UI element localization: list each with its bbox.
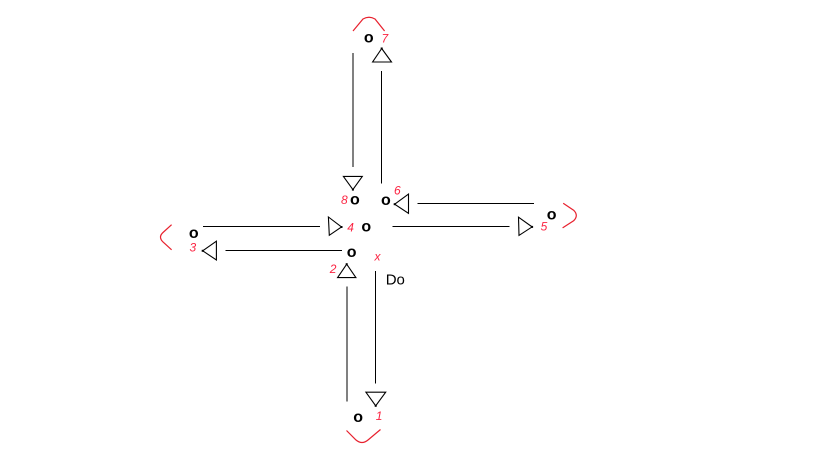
svg-text:2: 2 [329, 262, 337, 276]
svg-text:Do: Do [386, 272, 405, 289]
svg-text:4: 4 [347, 221, 354, 235]
svg-text:o: o [361, 218, 371, 235]
svg-text:o: o [347, 244, 357, 261]
svg-text:o: o [547, 207, 557, 224]
svg-text:5: 5 [541, 220, 548, 234]
svg-text:6: 6 [394, 183, 401, 197]
svg-text:o: o [353, 409, 363, 426]
svg-text:3: 3 [190, 240, 197, 254]
svg-text:o: o [364, 30, 374, 47]
svg-text:1: 1 [376, 409, 383, 423]
svg-text:o: o [350, 192, 360, 209]
svg-text:o: o [381, 192, 391, 209]
svg-text:x: x [374, 250, 382, 264]
svg-text:8: 8 [341, 193, 348, 207]
